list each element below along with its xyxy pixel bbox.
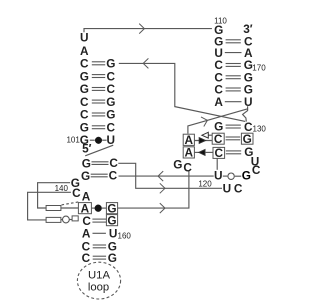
svg-text:U: U — [244, 95, 253, 109]
svg-text:C: C — [215, 146, 224, 160]
svg-text:loop: loop — [88, 281, 109, 293]
svg-text:A: A — [185, 146, 194, 160]
svg-text:G: G — [173, 158, 182, 172]
svg-text:140: 140 — [55, 184, 69, 193]
svg-text:G: G — [108, 251, 117, 265]
svg-text:120: 120 — [198, 180, 212, 189]
svg-text:G: G — [81, 169, 90, 183]
svg-text:A: A — [82, 227, 91, 241]
svg-text:5′: 5′ — [82, 141, 92, 155]
svg-text:C: C — [234, 182, 243, 196]
svg-text:U: U — [223, 182, 232, 196]
svg-text:130: 130 — [253, 125, 267, 134]
svg-text:C: C — [72, 186, 81, 200]
svg-text:U: U — [107, 133, 116, 147]
svg-text:U: U — [214, 169, 223, 183]
svg-text:101: 101 — [66, 136, 80, 145]
svg-text:C: C — [214, 132, 223, 146]
svg-text:U1A: U1A — [88, 269, 110, 281]
svg-text:160: 160 — [118, 232, 132, 241]
svg-text:C: C — [109, 168, 118, 182]
svg-text:U: U — [109, 227, 118, 241]
svg-text:U: U — [80, 31, 89, 45]
svg-text:G: G — [242, 169, 251, 183]
svg-text:A: A — [214, 95, 223, 109]
svg-text:C: C — [183, 161, 192, 175]
svg-text:C: C — [252, 163, 261, 177]
svg-text:170: 170 — [252, 64, 266, 73]
svg-text:G: G — [107, 214, 116, 228]
svg-text:C: C — [82, 251, 91, 265]
